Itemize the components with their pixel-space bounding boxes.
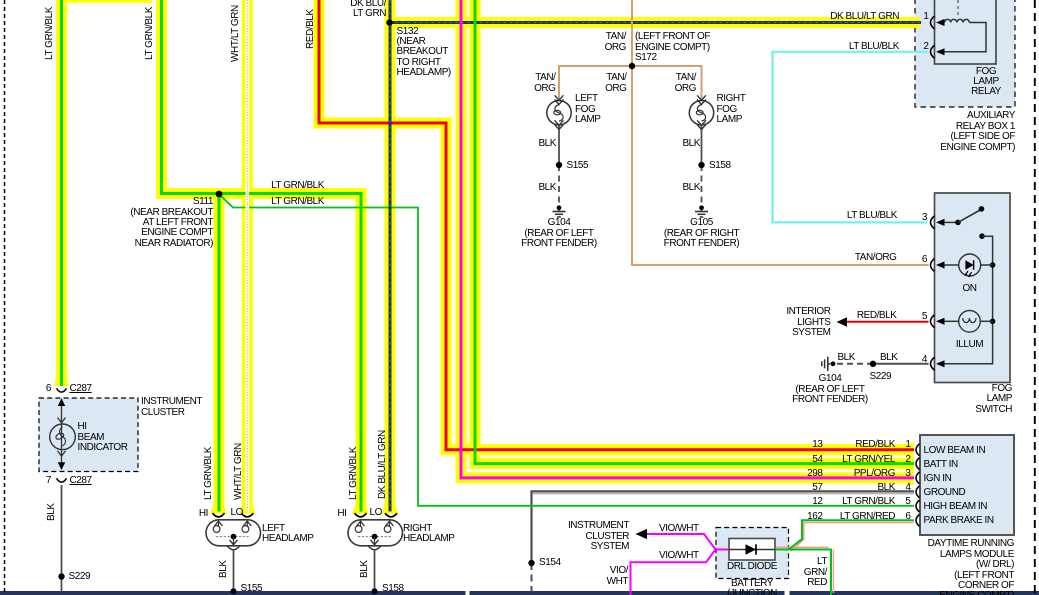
- splice S158 (bottom): [372, 588, 378, 594]
- label HI (right headlamp): [337, 509, 346, 519]
- circuit numbers 13/54/298/57/12/162: [812, 440, 822, 450]
- yellow highlight band: PPL/ORG: [461, 0, 914, 478]
- yellow highlight band: DK BLU/LT GRN: [390, 0, 921, 512]
- hi beam indicator (cluster): [50, 398, 76, 470]
- right headlamp body: [348, 513, 403, 550]
- label TAN/ORG (switch pin6): [855, 253, 897, 263]
- label LT GRN/RED (vertical wire): [804, 557, 827, 588]
- fog lamp relay box (solid): [935, 0, 997, 64]
- label LEFT FOG LAMP: [575, 94, 600, 125]
- label LT GRN/BLK (horizontal 1): [271, 181, 324, 191]
- label FOG LAMP SWITCH: [975, 384, 1012, 415]
- right fog lamp: [689, 95, 713, 129]
- label BLK (left fog lower): [538, 183, 556, 193]
- yellow flares at headlamp terminals: [211, 505, 399, 514]
- DRL diode box (dashed): [716, 528, 789, 579]
- switch ON indicator (LED): [936, 254, 993, 277]
- fog lamp switch box: [935, 193, 1011, 383]
- label LT BLU/BLK (switch pin3): [847, 211, 897, 221]
- wire core PPL/ORG: [461, 0, 914, 478]
- label G104 block (left fog): [509, 218, 609, 249]
- relay pin 1 bracket: [931, 16, 935, 29]
- module pin numbers 1-6: [905, 440, 910, 450]
- label HI BEAM INDICATOR: [78, 422, 128, 453]
- label DK BLU/LT GRN (right headlamp LO, rotated): [378, 430, 388, 499]
- label C287 (bottom): [70, 476, 92, 486]
- pin 6 (cluster): [46, 384, 51, 394]
- module pin brackets 1-6: [916, 444, 920, 527]
- switch ILLUM lamp: [936, 311, 993, 333]
- relay pin 2 bracket: [931, 45, 935, 58]
- label ILLUM: [954, 340, 985, 350]
- wire BLK: switch pin4, S229, ground: [837, 363, 929, 365]
- cluster pin 7 bracket: [57, 478, 67, 482]
- splice S229 (left): [58, 573, 64, 579]
- label RED/BLK (switch pin5): [857, 311, 897, 321]
- yellow highlight band: RED/BLK: [319, 0, 914, 450]
- yellow highlight band: LT GRN/YEL: [475, 0, 914, 464]
- wire core LT GRN/BLK left: [60, 0, 63, 386]
- label INSTRUMENT CLUSTER: [141, 397, 202, 418]
- label BLK (left fog upper): [538, 139, 556, 149]
- wire core LT GRN/YEL: [475, 0, 914, 464]
- label TAN/ORG (top of S172): [605, 32, 626, 53]
- label S158 (bottom): [382, 584, 404, 594]
- wire core WHT/LT GRN: [246, 0, 250, 512]
- label WHT/LT GRN (left headlamp LO, rotated): [234, 443, 244, 500]
- label TAN/ORG (right fog): [675, 73, 696, 94]
- yellow highlight band: S111 down to left headlamp HI: [214, 194, 225, 513]
- yellow highlight band: LT GRN/BLK via S111 to right headlamp HI: [162, 0, 362, 512]
- label C287 (top): [70, 384, 92, 394]
- wire BLK: right headlamp to S158: [374, 551, 376, 592]
- label TAN/ORG (middle): [605, 73, 626, 94]
- auxiliary relay box 1 (dashed): [915, 0, 1015, 107]
- splice S111: [216, 191, 223, 198]
- wire core LT GRN/BLK via S111 to right headlamp: [162, 0, 362, 512]
- label S132 block: [397, 27, 451, 79]
- label S229 (left splice): [69, 572, 91, 582]
- wire VIO/WHT lower: [631, 550, 716, 595]
- label S111 block: [130, 197, 213, 249]
- right page border (dashed): [1034, 0, 1036, 595]
- label BLK (right fog lower): [682, 183, 700, 193]
- yellow flares at module pins 1-3: [906, 442, 914, 485]
- label HI (left headlamp): [199, 509, 208, 519]
- wire core S111 to left headlamp: [218, 194, 221, 512]
- pin 2 (relay): [923, 42, 928, 52]
- label VIO/WHT (vertical wire): [607, 566, 628, 587]
- label BATTERY (JUNCTION: [712, 579, 792, 595]
- label TAN/ORG (left fog): [534, 73, 555, 94]
- switch pin3 internal switch blade: [936, 206, 985, 239]
- label RIGHT FOG LAMP: [717, 94, 746, 125]
- cluster pin 6 bracket: [57, 388, 67, 392]
- wire BLK: left headlamp to S155: [233, 551, 235, 592]
- pin 5 (switch): [922, 312, 927, 322]
- label DAYTIME RUNNING LAMPS MODULE: [928, 539, 1014, 595]
- label BLK (right headlamp, rotated): [360, 560, 370, 578]
- DRL diode inner box: [729, 539, 775, 561]
- label wire RED/BLK (rotated): [306, 9, 316, 49]
- splice S154: [528, 560, 534, 566]
- label FOG LAMP RELAY: [956, 67, 1016, 98]
- instrument cluster box (dashed): [39, 398, 138, 472]
- label wire WHT/LT GRN (rotated): [231, 5, 241, 62]
- wire LT GRN/BLK 12: S111 to module pin5: [219, 194, 914, 506]
- left headlamp body: [206, 513, 261, 550]
- label LO (left headlamp): [231, 508, 243, 518]
- DRL diode symbol: [729, 544, 775, 554]
- label VIO/WHT (lower): [659, 551, 699, 561]
- wire BLK: left fog lamp to G104: [558, 125, 560, 205]
- relay internal dashed stub: [957, 0, 959, 16]
- switch pin brackets 3,6,5,4: [931, 216, 935, 370]
- label BLK (switch solid): [880, 353, 898, 363]
- wire RED/BLK: switch pin5 to interior lights: [846, 321, 929, 323]
- left page border (dashed): [4, 0, 6, 595]
- pin 7 (cluster): [46, 476, 51, 486]
- wire BLK: right fog lamp to G105: [701, 125, 703, 205]
- relay coil and contacts: [936, 19, 986, 56]
- splice S132: [386, 19, 392, 25]
- wire names at module: [855, 440, 895, 450]
- bottom wire bar: [0, 591, 1039, 595]
- yellow highlight: top connector between LT GRN/BLK wires: [65, 0, 152, 3]
- wire BLK 57: module pin4 to S154: [532, 491, 915, 591]
- wire TAN/ORG branch to fog lamps: [559, 66, 702, 101]
- label LT GRN/BLK (horizontal 2): [271, 197, 324, 207]
- label DK BLU/LT GRN (relay pin1): [830, 12, 899, 22]
- label S155 (bottom): [241, 584, 263, 594]
- splice S172: [629, 63, 635, 69]
- pin 3 (switch): [922, 213, 927, 223]
- splice S155 (bottom): [231, 588, 237, 594]
- label LO (right headlamp): [370, 508, 382, 518]
- wire BLK: cluster pin7 to S229 to bottom: [61, 485, 63, 592]
- label DK BLU/LT GRN (top, two lines): [350, 0, 386, 20]
- label G104 block (switch): [780, 374, 880, 405]
- ground G104 (left fog): [553, 205, 566, 217]
- wire TAN/ORG main: top to switch pin 6: [632, 0, 929, 265]
- pin 1 (relay): [923, 12, 928, 22]
- wire LT GRN/RED 162: module pin6 to DRL diode and down: [776, 520, 915, 595]
- label LT GRN/BLK (right headlamp HI, rotated): [349, 447, 359, 500]
- label BLK (right fog upper): [682, 139, 700, 149]
- yellow highlight band: WHT/LT GRN: [242, 0, 253, 512]
- arrow to instrument cluster system: [636, 529, 648, 539]
- pin 6 (switch): [922, 255, 927, 265]
- wire VIO/WHT upper: to instrument cluster system: [646, 534, 729, 550]
- label BLK (left headlamp, rotated): [219, 560, 229, 578]
- pin 4 (switch): [922, 355, 927, 365]
- label INTERIOR LIGHTS SYSTEM: [786, 307, 830, 338]
- module pin names: [924, 446, 986, 456]
- label INSTRUMENT CLUSTER SYSTEM: [568, 521, 629, 552]
- label S158 (fog): [709, 161, 731, 171]
- label S154: [539, 558, 561, 568]
- label BLK (switch dashed): [837, 353, 855, 363]
- label wire LT GRN/BLK (second, rotated): [145, 7, 155, 60]
- label VIO/WHT (upper): [659, 524, 699, 534]
- ground G104 (switch area, pointing left): [822, 357, 836, 371]
- daytime running lamps module box: [920, 435, 1014, 535]
- splice S158 (fog): [698, 162, 704, 168]
- label S172 block: [635, 32, 710, 63]
- label LT BLU/BLK (relay pin2): [849, 42, 899, 52]
- label LT GRN/BLK (left headlamp HI, rotated): [204, 447, 214, 500]
- label BLK (cluster, rotated): [47, 503, 57, 521]
- ground G105 (right fog): [695, 205, 708, 217]
- label ON: [954, 284, 985, 294]
- label DRL DIODE: [714, 562, 790, 572]
- label S229 (switch): [870, 372, 892, 382]
- left fog lamp: [547, 95, 571, 129]
- label AUXILIARY RELAY BOX 1: [940, 111, 1015, 153]
- label G105 block (right fog): [652, 218, 752, 249]
- splice S229 (switch): [870, 361, 876, 367]
- yellow highlight band: wire LT GRN/BLK to instrument cluster: [55, 0, 69, 386]
- label S155 (fog): [567, 161, 589, 171]
- label LEFT HEADLAMP: [262, 524, 313, 545]
- wire LT BLU/BLK: relay pin2 to switch pin3: [773, 52, 928, 223]
- label RIGHT HEADLAMP: [403, 524, 454, 545]
- label wire LT GRN/BLK (far left, rotated): [45, 7, 55, 60]
- switch internal rail: [936, 236, 995, 367]
- wire core RED/BLK: [319, 0, 914, 450]
- splice S155 (fog): [556, 162, 562, 168]
- arrow to interior lights system: [837, 317, 848, 327]
- wire core DK BLU/LT GRN: [390, 0, 922, 512]
